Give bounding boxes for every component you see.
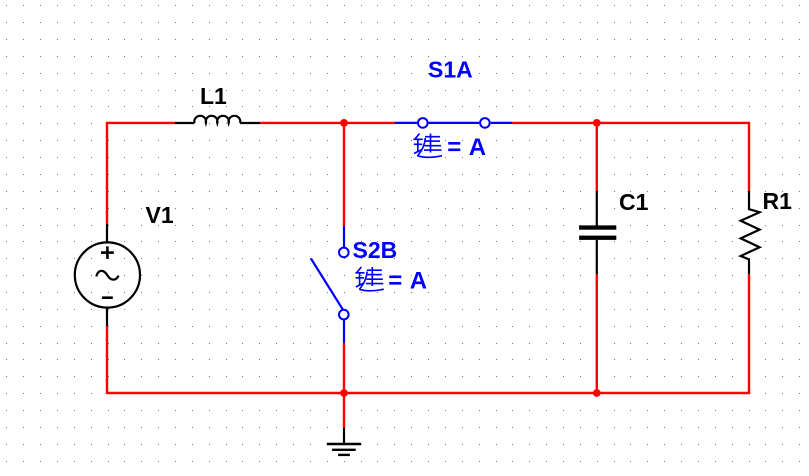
svg-text:S2B: S2B: [353, 237, 398, 263]
svg-text:S1A: S1A: [428, 57, 473, 83]
svg-text:R1: R1: [763, 188, 793, 214]
svg-text:L1: L1: [200, 83, 227, 109]
svg-text:= A: = A: [447, 134, 487, 161]
svg-text:= A: = A: [388, 267, 428, 294]
svg-text:V1: V1: [146, 202, 174, 228]
svg-text:C1: C1: [619, 189, 649, 215]
